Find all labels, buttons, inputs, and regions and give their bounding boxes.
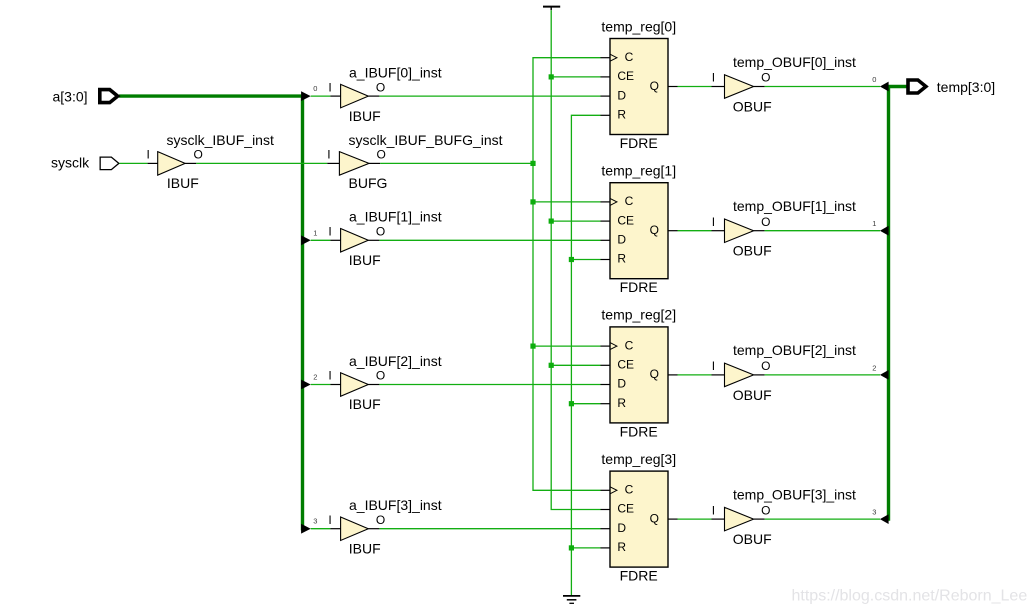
svg-text:O: O	[761, 359, 770, 373]
svg-text:OBUF: OBUF	[733, 531, 772, 547]
svg-text:temp_reg[0]: temp_reg[0]	[601, 18, 676, 34]
svg-text:I: I	[712, 503, 715, 517]
svg-text:a_IBUF[2]_inst: a_IBUF[2]_inst	[349, 353, 442, 369]
svg-text:CE: CE	[617, 213, 634, 227]
svg-text:Q: Q	[650, 223, 659, 237]
svg-text:O: O	[376, 369, 385, 383]
svg-text:2: 2	[313, 373, 317, 382]
svg-text:C: C	[625, 338, 634, 352]
svg-text:a_IBUF[3]_inst: a_IBUF[3]_inst	[349, 497, 442, 513]
svg-text:Q: Q	[650, 79, 659, 93]
svg-text:I: I	[712, 359, 715, 373]
svg-text:FDRE: FDRE	[620, 568, 658, 584]
svg-text:0: 0	[313, 84, 317, 93]
svg-text:temp_OBUF[2]_inst: temp_OBUF[2]_inst	[733, 342, 856, 358]
svg-text:O: O	[376, 513, 385, 527]
svg-text:D: D	[617, 233, 626, 247]
svg-text:R: R	[617, 252, 626, 266]
svg-text:O: O	[376, 225, 385, 239]
svg-text:2: 2	[872, 363, 876, 372]
svg-text:Q: Q	[650, 367, 659, 381]
svg-text:OBUF: OBUF	[733, 387, 772, 403]
svg-text:D: D	[617, 377, 626, 391]
svg-text:O: O	[761, 71, 770, 85]
svg-text:IBUF: IBUF	[349, 396, 381, 412]
svg-text:0: 0	[872, 75, 876, 84]
svg-text:a_IBUF[1]_inst: a_IBUF[1]_inst	[349, 209, 442, 225]
svg-text:OBUF: OBUF	[733, 243, 772, 259]
svg-text:temp_reg[2]: temp_reg[2]	[601, 307, 676, 323]
svg-text:IBUF: IBUF	[349, 540, 381, 556]
svg-text:FDRE: FDRE	[620, 135, 658, 151]
svg-text:CE: CE	[617, 502, 634, 516]
svg-text:temp_OBUF[0]_inst: temp_OBUF[0]_inst	[733, 54, 856, 70]
svg-text:I: I	[328, 225, 331, 239]
svg-text:IBUF: IBUF	[349, 252, 381, 268]
svg-text:O: O	[376, 80, 385, 94]
svg-text:FDRE: FDRE	[620, 423, 658, 439]
svg-text:CE: CE	[617, 69, 634, 83]
svg-text:1: 1	[313, 228, 317, 237]
svg-text:C: C	[625, 194, 634, 208]
svg-text:I: I	[147, 148, 150, 162]
svg-text:R: R	[617, 108, 626, 122]
svg-text:temp_reg[3]: temp_reg[3]	[601, 451, 676, 467]
svg-text:a[3:0]: a[3:0]	[53, 88, 88, 104]
svg-text:I: I	[328, 513, 331, 527]
svg-text:a_IBUF[0]_inst: a_IBUF[0]_inst	[349, 65, 442, 81]
svg-text:3: 3	[313, 517, 317, 526]
svg-text:BUFG: BUFG	[349, 175, 388, 191]
svg-text:IBUF: IBUF	[167, 175, 199, 191]
svg-text:I: I	[327, 148, 330, 162]
svg-text:O: O	[761, 503, 770, 517]
svg-text:sysclk_IBUF_BUFG_inst: sysclk_IBUF_BUFG_inst	[349, 132, 503, 148]
svg-text:1: 1	[872, 219, 876, 228]
svg-text:temp_reg[1]: temp_reg[1]	[601, 163, 676, 179]
svg-text:I: I	[712, 215, 715, 229]
svg-text:R: R	[617, 540, 626, 554]
svg-text:sysclk: sysclk	[51, 155, 90, 171]
svg-text:O: O	[761, 215, 770, 229]
svg-text:FDRE: FDRE	[620, 279, 658, 295]
svg-text:temp_OBUF[3]_inst: temp_OBUF[3]_inst	[733, 486, 856, 502]
svg-text:I: I	[328, 369, 331, 383]
svg-text:IBUF: IBUF	[349, 108, 381, 124]
svg-text:https://blog.csdn.net/Reborn_L: https://blog.csdn.net/Reborn_Lee	[792, 587, 1028, 604]
svg-text:CE: CE	[617, 358, 634, 372]
svg-text:temp_OBUF[1]_inst: temp_OBUF[1]_inst	[733, 198, 856, 214]
svg-text:3: 3	[872, 508, 876, 517]
svg-text:D: D	[617, 521, 626, 535]
svg-text:temp[3:0]: temp[3:0]	[937, 79, 995, 95]
svg-text:C: C	[625, 483, 634, 497]
svg-text:I: I	[328, 80, 331, 94]
svg-text:Q: Q	[650, 511, 659, 525]
svg-text:C: C	[625, 50, 634, 64]
svg-text:R: R	[617, 396, 626, 410]
svg-text:sysclk_IBUF_inst: sysclk_IBUF_inst	[167, 132, 274, 148]
svg-text:OBUF: OBUF	[733, 99, 772, 115]
svg-text:I: I	[712, 71, 715, 85]
svg-text:D: D	[617, 88, 626, 102]
svg-text:O: O	[194, 148, 203, 162]
svg-text:O: O	[377, 148, 386, 162]
